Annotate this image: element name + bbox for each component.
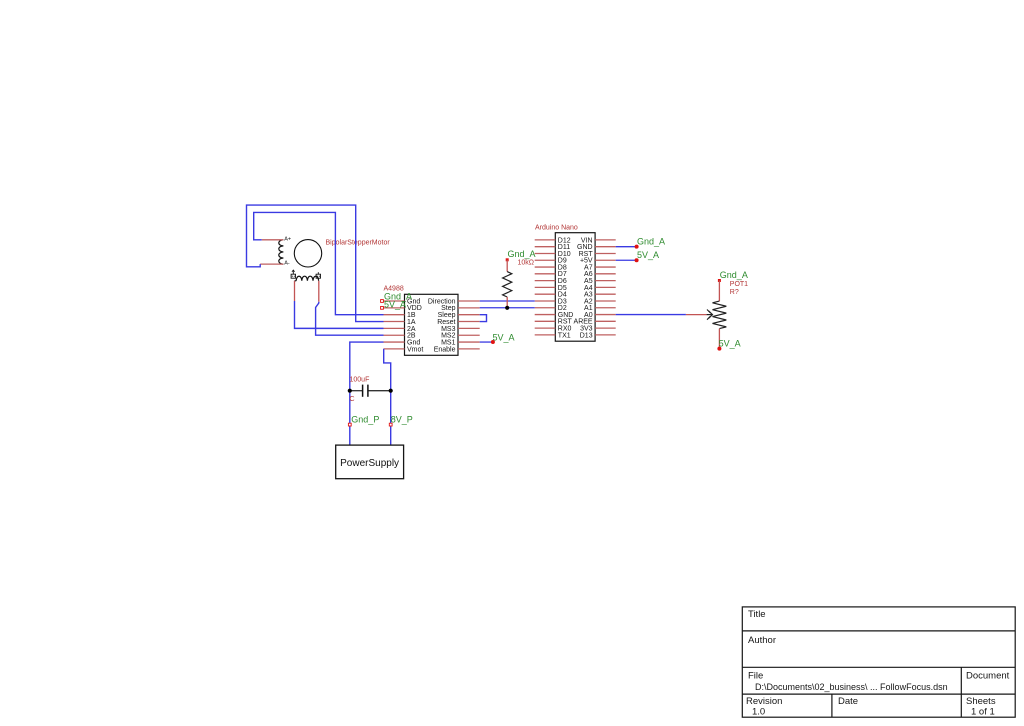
svg-text:POT1: POT1 (730, 281, 748, 288)
svg-text:A+: A+ (284, 236, 291, 242)
svg-text:10kΩ: 10kΩ (518, 259, 535, 266)
svg-text:Gnd_A: Gnd_A (637, 237, 665, 247)
svg-text:Date: Date (838, 696, 858, 707)
svg-text:1 of 1: 1 of 1 (971, 707, 995, 718)
svg-text:Author: Author (748, 635, 776, 646)
svg-text:5V_A: 5V_A (719, 338, 741, 348)
svg-text:Gnd_A: Gnd_A (720, 270, 748, 280)
svg-text:Revision: Revision (746, 696, 782, 707)
svg-text:Title: Title (748, 609, 766, 620)
svg-text:R?: R? (730, 289, 739, 296)
svg-text:File: File (748, 671, 763, 682)
svg-text:Enable: Enable (434, 346, 456, 353)
svg-text:Vmot: Vmot (407, 346, 423, 353)
svg-text:TX1: TX1 (558, 332, 571, 339)
svg-text:Gnd_P: Gnd_P (351, 414, 379, 424)
svg-text:D13: D13 (580, 332, 593, 339)
svg-text:5V_A: 5V_A (384, 300, 406, 310)
svg-text:A4988: A4988 (384, 286, 404, 293)
svg-text:A-: A- (284, 261, 290, 267)
svg-text:Gnd_A: Gnd_A (508, 249, 536, 259)
svg-text:5V_A: 5V_A (493, 333, 515, 343)
svg-text:100uF: 100uF (350, 377, 370, 384)
svg-text:5V_A: 5V_A (637, 250, 659, 260)
svg-text:PowerSupply: PowerSupply (340, 458, 399, 469)
svg-text:D:\Documents\02_business\ ...: D:\Documents\02_business\ ... FollowFocu… (755, 682, 948, 692)
svg-text:C: C (350, 396, 355, 403)
svg-text:Document: Document (966, 671, 1010, 682)
svg-text:Sheets: Sheets (966, 696, 996, 707)
svg-text:1.0: 1.0 (752, 707, 765, 718)
svg-text:Arduino Nano: Arduino Nano (535, 224, 578, 231)
svg-text:8V_P: 8V_P (391, 414, 413, 424)
